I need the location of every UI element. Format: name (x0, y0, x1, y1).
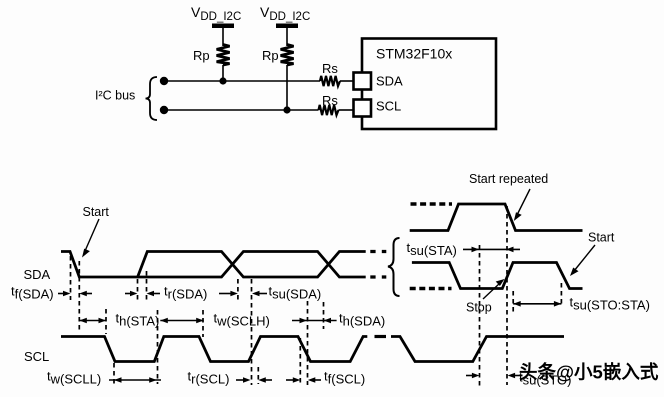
dashed guide x=146.5 (146, 271, 148, 300)
dashed guide x=479.5 (479, 245, 481, 387)
dashed guide x=106 (105, 309, 107, 334)
svg-text:STM32F10x: STM32F10x (376, 46, 452, 62)
svg-text:tsu(STO:STA): tsu(STO:STA) (570, 295, 650, 313)
dashed guide x=237.9 (237, 279, 239, 300)
svg-text:Rs: Rs (322, 93, 338, 108)
svg-text:tsu(SDA): tsu(SDA) (269, 284, 322, 302)
dashed guide x=561.4 (560, 283, 562, 305)
junction node Rp2/SCL (283, 106, 290, 113)
annotation th(STA) (79, 311, 159, 329)
svg-text:Rs: Rs (322, 61, 338, 76)
annotation tw(SCLH) (160, 311, 270, 329)
dashed guide x=307.5 (307, 301, 309, 385)
SCL waveform (61, 337, 367, 362)
label Stop with arrow (466, 279, 505, 315)
svg-text:头条@小5嵌入式: 头条@小5嵌入式 (519, 362, 659, 383)
brace splitting SDA (388, 238, 400, 296)
SDA waveform line B (bus crossings) (138, 252, 366, 278)
annotation tsu(STA) (407, 240, 521, 258)
svg-text:th(SDA): th(SDA) (339, 311, 385, 329)
waveform row B dotted low rail (410, 287, 452, 290)
pin SCL (354, 99, 402, 117)
dashed guide x=513.2 (512, 291, 514, 314)
svg-text:tf(SDA): tf(SDA) (11, 284, 54, 302)
SCL waveform right (391, 337, 564, 362)
resistor Rs SCL (319, 93, 339, 115)
svg-text:Rp: Rp (262, 48, 279, 63)
svg-text:tf(SCL): tf(SCL) (324, 369, 365, 387)
label Start repeated with arrow (469, 172, 548, 221)
resistor Rp right (262, 45, 294, 66)
svg-text:Start: Start (83, 205, 110, 219)
dashed guide x=79.3 (78, 261, 80, 331)
svg-text:Start: Start (588, 231, 615, 245)
svg-text:I²C bus: I²C bus (95, 89, 135, 103)
svg-text:VDD_I2C: VDD_I2C (260, 4, 310, 23)
IC U1 STM32F10x (362, 39, 496, 130)
annotation tsu(SDA) (219, 284, 321, 302)
wire Rp1 to SDA line (222, 65, 224, 81)
resistor Rs SDA (320, 61, 340, 86)
SDA continuation dashes low (370, 275, 386, 278)
SDA continuation dashes high (370, 250, 386, 253)
waveform row A solid (410, 204, 583, 231)
svg-text:tr(SCL): tr(SCL) (188, 369, 230, 387)
svg-text:VDD_I2C: VDD_I2C (191, 4, 241, 23)
svg-text:SDA: SDA (376, 74, 403, 89)
wire Rs to SCL pin (339, 109, 355, 111)
annotation tr(SCL) (188, 369, 273, 387)
dashed guide x=300.3 (299, 338, 301, 384)
dashed guide x=137.5 (137, 279, 139, 300)
waveform row B solid (412, 263, 583, 289)
svg-text:Start repeated: Start repeated (469, 172, 548, 186)
dashed guide x=251.5 (251, 279, 253, 385)
wire VDD2 to Rp2 (286, 28, 288, 46)
brace I2C bus (146, 77, 158, 120)
dashed guide x=157.5 (157, 310, 159, 384)
svg-text:Stop: Stop (466, 301, 492, 315)
svg-text:tsu(STA): tsu(STA) (407, 240, 457, 258)
dashed guide x=258.3 (257, 367, 259, 384)
svg-text:SCL: SCL (24, 349, 49, 364)
dashed guide x=114 (113, 363, 115, 384)
SDA waveform line A (61, 252, 366, 278)
dashed guide x=323.5 (323, 302, 325, 329)
junction node Rp1/SDA (219, 77, 226, 84)
wire VDD1 to Rp1 (222, 28, 224, 46)
label Start left with arrow (82, 205, 109, 258)
annotation tf(SCL) (286, 369, 365, 387)
dashed guide x=203 (202, 310, 204, 337)
svg-text:Rp: Rp (193, 48, 210, 63)
annotation tsu(STO) (466, 370, 572, 388)
svg-text:tw(SCLH): tw(SCLH) (214, 311, 270, 329)
dashed guide x=507 (506, 206, 508, 385)
power rail VDD_I2C right (260, 4, 310, 28)
wire Rs to SDA pin (340, 80, 354, 82)
svg-text:tw(SCLL): tw(SCLL) (47, 369, 101, 387)
waveform row A (repeated start) dotted high rail (411, 202, 453, 205)
dashed guide x=70.5 (70, 256, 72, 300)
svg-text:SCL: SCL (376, 99, 401, 114)
wire SCL bus (164, 109, 319, 111)
svg-text:tr(SDA): tr(SDA) (164, 284, 207, 302)
wire SDA bus (164, 80, 320, 82)
label Start right with arrow (570, 231, 615, 277)
pin SDA (354, 73, 404, 90)
annotation tf(SDA) (11, 284, 92, 302)
terminal node SCL (160, 106, 168, 114)
terminal node SDA (160, 77, 168, 85)
annotation tw(SCLL) (47, 369, 161, 387)
power rail VDD_I2C left (191, 4, 241, 28)
annotation tr(SDA) (125, 284, 207, 302)
annotation tsu(STO:STA) (513, 295, 650, 313)
svg-text:SDA: SDA (24, 267, 51, 282)
svg-text:th(STA): th(STA) (116, 311, 160, 329)
wire Rp2 crossing SDA to SCL line (286, 65, 288, 110)
annotation th(SDA) (292, 311, 385, 329)
SCL continuation dash (375, 335, 387, 338)
resistor Rp left (193, 45, 230, 66)
